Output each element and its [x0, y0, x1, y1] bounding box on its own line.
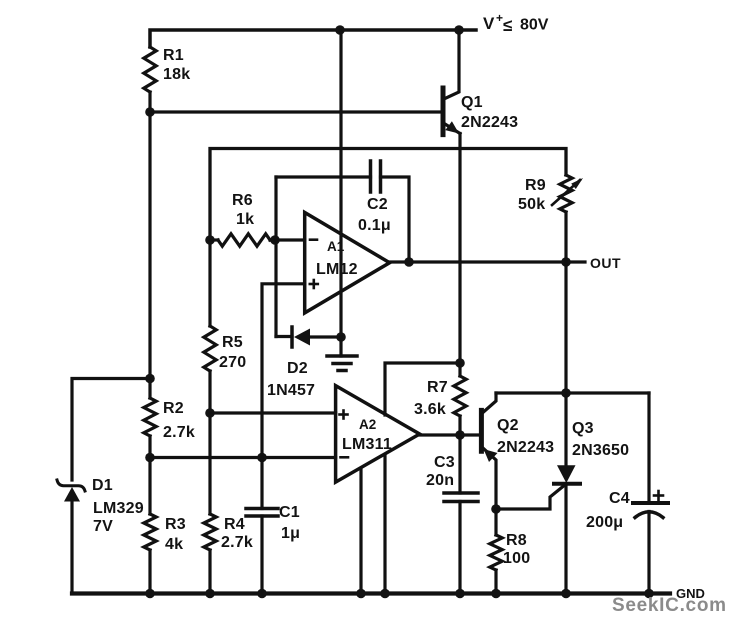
node gnd A2 pin2 — [380, 589, 390, 599]
svg-text:2N2243: 2N2243 — [461, 114, 518, 131]
svg-text:7V: 7V — [93, 518, 113, 535]
label D2 1N457 — [267, 360, 315, 399]
svg-text:R8: R8 — [506, 532, 527, 549]
capacitor C2 — [369, 161, 373, 192]
label A1 LM12 — [316, 239, 358, 278]
resistor R5 — [204, 326, 216, 371]
svg-text:Q1: Q1 — [461, 94, 483, 111]
resistor R2 — [144, 398, 156, 436]
node A1 output / C2 — [404, 257, 414, 267]
svg-text:LM311: LM311 — [342, 436, 392, 453]
wire Q2/Q3 collector rail — [496, 391, 649, 394]
label R4 2.7k — [221, 516, 253, 551]
svg-text:1N457: 1N457 — [267, 382, 315, 399]
transistor Q2 2N2243 — [479, 410, 484, 451]
svg-text:Q2: Q2 — [497, 417, 519, 434]
node gnd R3 — [145, 589, 155, 599]
thyristor Q3 2N3650 — [564, 393, 567, 466]
watermark SeekIC.com — [612, 595, 727, 616]
svg-text:3.6k: 3.6k — [414, 401, 446, 418]
svg-text:100: 100 — [503, 550, 530, 567]
node A2 noninverting tap — [205, 408, 215, 418]
wire Q1 base rail — [150, 110, 441, 113]
diode D2 1N457 — [276, 335, 292, 338]
label C3 20n — [426, 454, 455, 489]
capacitor C3 — [458, 435, 461, 493]
op-amp A2 LM311 — [336, 386, 420, 483]
svg-text:SeekIC.com: SeekIC.com — [612, 595, 727, 616]
label R8 100 — [503, 532, 530, 567]
label C1 1u — [279, 504, 300, 542]
wire A2 inverting input — [150, 456, 336, 459]
svg-text:R5: R5 — [222, 334, 243, 351]
resistor R1 — [144, 47, 156, 92]
node D1 tap — [145, 374, 155, 384]
wire D1 branch top — [72, 379, 150, 481]
node R7 top / Q1 emitter — [455, 358, 465, 368]
wire left column x150 — [148, 112, 151, 398]
svg-text:2N3650: 2N3650 — [572, 442, 629, 459]
svg-text:4k: 4k — [165, 536, 183, 553]
label C4 200u — [586, 490, 630, 531]
diode D1 zener LM329 — [57, 480, 85, 491]
svg-text:≤: ≤ — [503, 16, 512, 35]
wire ground rail bottom — [72, 591, 670, 595]
label R2 2.7k — [163, 400, 195, 441]
node A2 output / R7 / C3 / Q2 base — [455, 430, 465, 440]
svg-text:2N2243: 2N2243 — [497, 439, 554, 456]
svg-text:LM329: LM329 — [93, 500, 144, 517]
svg-text:C4: C4 — [609, 490, 630, 507]
node Q3 anode rail — [561, 388, 571, 398]
svg-text:C3: C3 — [434, 454, 455, 471]
label GND — [676, 586, 705, 601]
svg-text:OUT: OUT — [590, 255, 621, 271]
node R2/R3 divider — [145, 453, 155, 463]
label A2 LM311 — [342, 417, 392, 453]
wire A2 ground pin 2 — [383, 456, 386, 594]
svg-text:A2: A2 — [359, 417, 376, 432]
svg-text:1k: 1k — [236, 211, 254, 228]
node R6 left — [205, 235, 215, 245]
label R1 18k — [163, 47, 190, 83]
node top rail / Q1 collector — [454, 25, 464, 35]
wire Q1 emitter column x460 — [458, 134, 461, 364]
transistor Q1 2N2243 — [441, 88, 446, 135]
resistor R3 — [144, 514, 156, 550]
wire C2 left / D2 column x276 — [274, 177, 277, 337]
capacitor C2 wires — [276, 175, 371, 178]
ground — [339, 337, 342, 356]
wire A2 output — [420, 433, 480, 436]
svg-text:2.7k: 2.7k — [163, 424, 195, 441]
wire A2 ground pin 1 — [359, 469, 362, 594]
node gnd C1 — [257, 589, 267, 599]
node gnd A2 pin1 — [356, 589, 366, 599]
wire A1 noninverting input — [262, 284, 305, 458]
node gnd C3 — [455, 589, 465, 599]
label R3 4k — [165, 516, 186, 553]
node Q2 emitter / R8 / Q3 gate — [491, 504, 501, 514]
node top rail / A1 supply — [335, 25, 345, 35]
capacitor C4 200u polarized — [647, 393, 650, 503]
wire A1 inverting input — [275, 238, 305, 241]
label C2 0.1u — [358, 196, 391, 234]
resistor R8 — [494, 509, 497, 535]
wire feedback rail y148 — [210, 149, 566, 241]
node gnd Q3 cathode — [561, 589, 571, 599]
svg-text:2.7k: 2.7k — [221, 534, 253, 551]
wire V+ top rail — [150, 30, 476, 47]
node R1 bottom / base rail — [145, 107, 155, 117]
svg-text:270: 270 — [219, 354, 246, 371]
node OUT / R9 — [561, 257, 571, 267]
svg-text:C2: C2 — [367, 196, 388, 213]
wire A2 noninverting input — [210, 411, 336, 414]
label Q2 2N2243 — [497, 417, 554, 456]
svg-text:+: + — [496, 11, 503, 25]
svg-text:R1: R1 — [163, 47, 184, 64]
op-amp A1 LM12 — [305, 213, 390, 313]
label D1 LM329 7V — [92, 477, 144, 535]
label R7 3.6k — [414, 379, 448, 418]
svg-text:R7: R7 — [427, 379, 448, 396]
svg-text:1μ: 1μ — [281, 525, 300, 542]
svg-text:50k: 50k — [518, 196, 545, 213]
wire mid column x210 — [208, 240, 211, 326]
node D2 / ground — [336, 332, 346, 342]
node gnd R4 — [205, 589, 215, 599]
resistor R4 — [204, 514, 216, 550]
svg-text:V: V — [483, 14, 495, 33]
wire A1 output / OUT line — [390, 260, 585, 263]
svg-text:D1: D1 — [92, 477, 113, 494]
resistor R7 — [458, 363, 461, 376]
svg-text:R2: R2 — [163, 400, 184, 417]
svg-text:R3: R3 — [165, 516, 186, 533]
svg-text:20n: 20n — [426, 472, 454, 489]
svg-text:D2: D2 — [287, 360, 308, 377]
wire A2 strobe pin — [385, 363, 460, 415]
label V+ <= 80V — [483, 11, 549, 35]
wire A1 supply column x341 — [339, 30, 342, 337]
node R6 right / A1 inverting — [270, 235, 280, 245]
svg-text:LM12: LM12 — [316, 261, 358, 278]
capacitor C1 — [260, 458, 263, 509]
svg-text:C1: C1 — [279, 504, 300, 521]
node gnd R8 — [491, 589, 501, 599]
label R9 50k — [518, 177, 546, 213]
resistor R9 variable — [560, 175, 572, 212]
wire R9/OUT down to Q3 rail — [564, 262, 567, 393]
node A2 inverting / C1 — [257, 453, 267, 463]
svg-text:Q3: Q3 — [572, 420, 594, 437]
label Q1 2N2243 — [461, 94, 518, 131]
svg-text:R9: R9 — [525, 177, 546, 194]
svg-text:18k: 18k — [163, 66, 190, 83]
svg-text:200μ: 200μ — [586, 514, 623, 531]
svg-text:80V: 80V — [520, 17, 549, 34]
svg-text:R4: R4 — [224, 516, 245, 533]
label OUT — [590, 255, 621, 271]
label Q3 2N3650 — [572, 420, 629, 459]
svg-text:R6: R6 — [232, 192, 253, 209]
node gnd C4 — [644, 589, 654, 599]
label R6 1k — [232, 192, 254, 228]
label R5 270 — [219, 334, 246, 371]
svg-text:0.1μ: 0.1μ — [358, 217, 391, 234]
resistor R6 — [218, 234, 270, 246]
